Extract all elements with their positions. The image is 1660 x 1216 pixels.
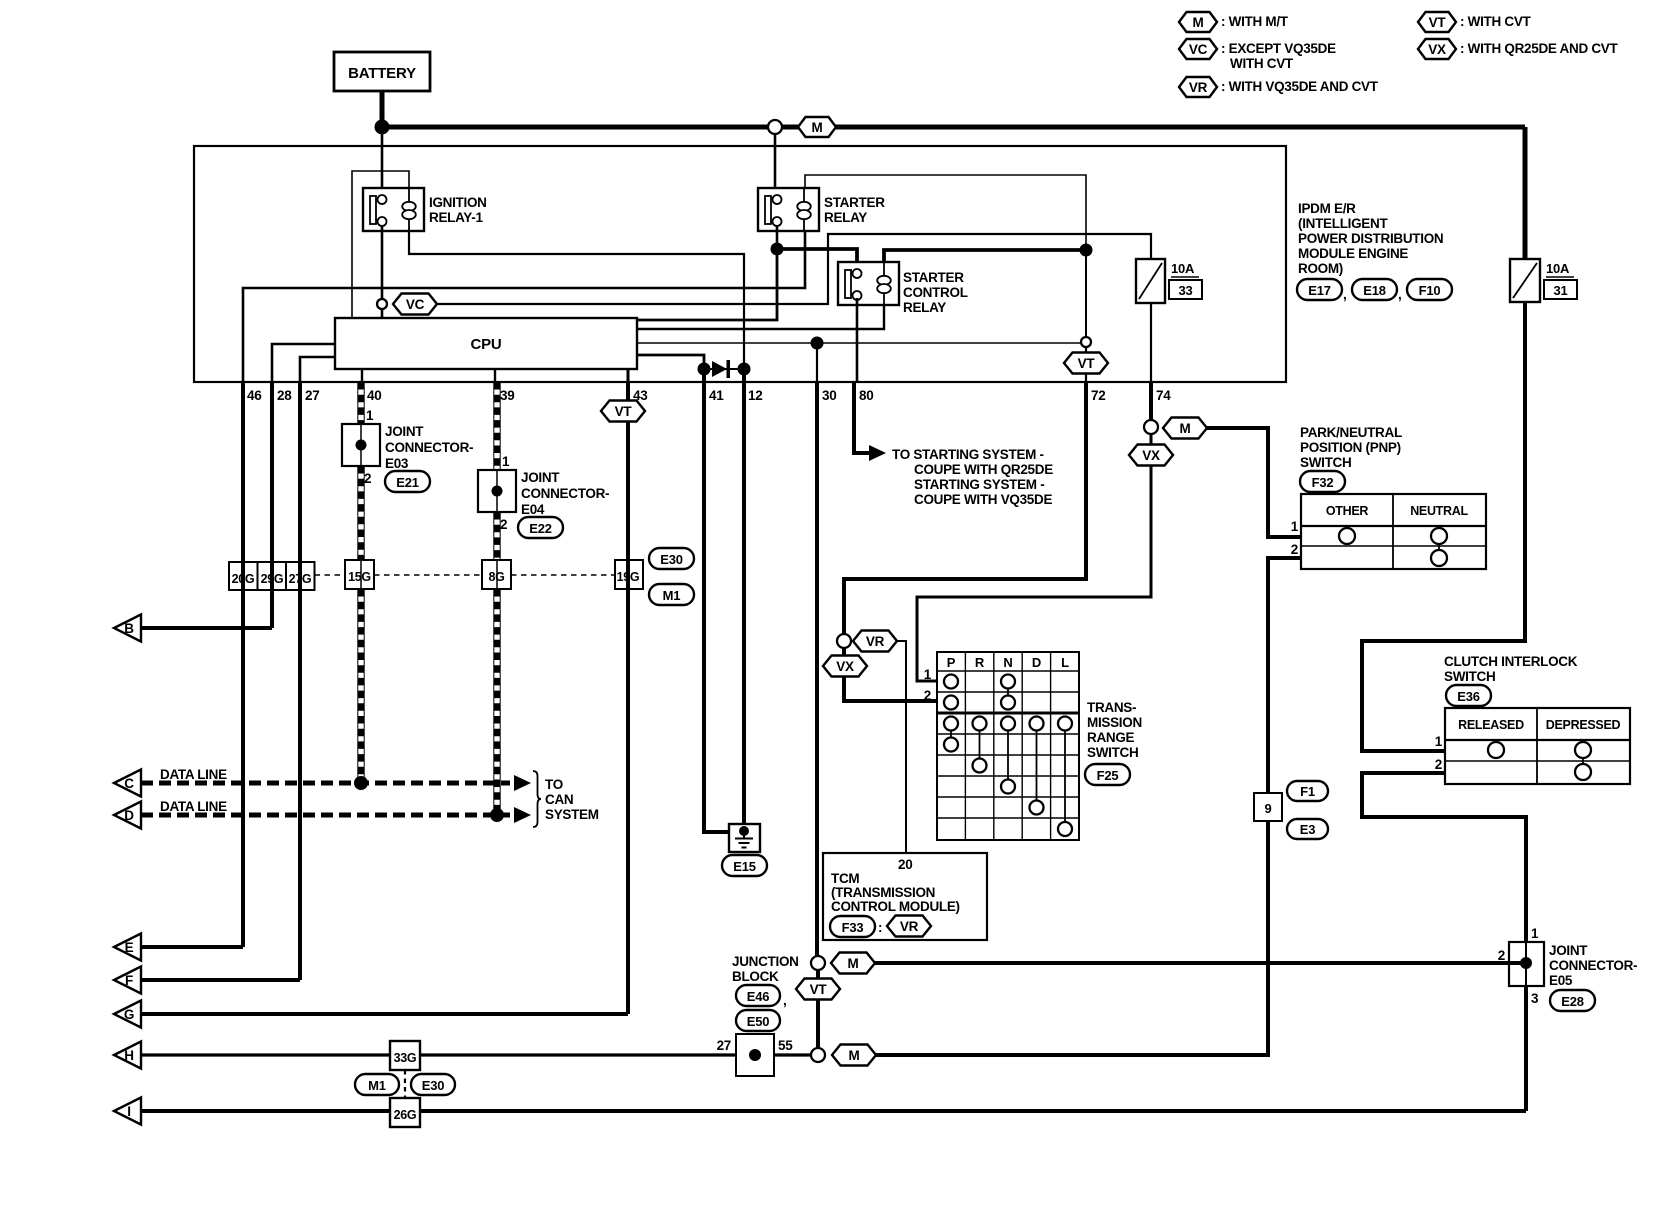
PNP switch title bbox=[1300, 425, 1402, 470]
wire CPU pin 27 bbox=[300, 357, 335, 382]
connector oval E46 bbox=[736, 985, 786, 1008]
wire pin 39 dashed segment bbox=[494, 382, 500, 470]
wire VR tag to TCM pin 20 bbox=[897, 641, 906, 853]
transmission range switch table bbox=[937, 652, 1079, 840]
connector oval F1 bbox=[1287, 781, 1328, 801]
svg-text:46: 46 bbox=[247, 388, 262, 403]
svg-text:CONNECTOR-: CONNECTOR- bbox=[1549, 958, 1637, 973]
svg-text:E15: E15 bbox=[733, 859, 756, 874]
svg-text:1: 1 bbox=[502, 454, 510, 469]
svg-text:H: H bbox=[124, 1048, 133, 1063]
wire starter relay out node bbox=[776, 226, 779, 249]
wire H to junction block bbox=[141, 1053, 736, 1056]
starter control relay bbox=[838, 262, 899, 305]
PNP contacts NEUTRAL bbox=[1431, 528, 1447, 566]
svg-text:M: M bbox=[848, 956, 859, 971]
svg-text:F10: F10 bbox=[1419, 283, 1441, 298]
svg-text:55: 55 bbox=[778, 1038, 793, 1053]
svg-text:: EXCEPT VQ35DE: : EXCEPT VQ35DE bbox=[1221, 41, 1336, 56]
tag VX below VR node bbox=[823, 656, 867, 677]
svg-text:SWITCH: SWITCH bbox=[1300, 455, 1351, 470]
svg-text:BATTERY: BATTERY bbox=[348, 65, 416, 82]
svg-text:CONNECTOR-: CONNECTOR- bbox=[385, 440, 473, 455]
svg-text:20G: 20G bbox=[232, 572, 255, 586]
dashed ganged-connector line bbox=[315, 574, 616, 576]
svg-text:SYSTEM: SYSTEM bbox=[545, 807, 599, 822]
svg-text:C: C bbox=[124, 776, 134, 791]
wire CPU pin 40 stub bbox=[361, 369, 363, 382]
wire pin 40 dashed segment bbox=[358, 382, 364, 424]
clutch interlock table bbox=[1445, 708, 1630, 784]
svg-text:27: 27 bbox=[305, 388, 319, 403]
splice box 9 on PNP pin2 riser bbox=[1254, 793, 1282, 821]
svg-text:F33: F33 bbox=[842, 920, 864, 935]
svg-text:E30: E30 bbox=[422, 1078, 445, 1093]
tag VC bbox=[393, 294, 437, 315]
svg-text:F1: F1 bbox=[1300, 784, 1315, 799]
splice box 8G bbox=[482, 560, 511, 589]
node starter relay output bbox=[771, 243, 784, 256]
connector oval M1 lower bbox=[355, 1074, 399, 1095]
wire battery down bbox=[380, 91, 385, 127]
joint connector E05 bbox=[1509, 942, 1544, 986]
arrow E bbox=[114, 934, 141, 961]
svg-text:IGNITION: IGNITION bbox=[429, 195, 487, 210]
connector oval F33 bbox=[830, 916, 882, 937]
TO STARTING SYSTEM text bbox=[892, 447, 1053, 507]
svg-text:P: P bbox=[947, 655, 956, 670]
svg-text:E3: E3 bbox=[1300, 822, 1316, 837]
svg-text:CONNECTOR-: CONNECTOR- bbox=[521, 486, 609, 501]
node junction block lower circle bbox=[811, 1048, 825, 1062]
diode D1 bbox=[712, 361, 727, 377]
connector oval F25 bbox=[1085, 764, 1130, 785]
wire control relay coil return to CPU bbox=[637, 305, 884, 329]
svg-text:3: 3 bbox=[1531, 991, 1539, 1006]
wire VC node to CPU top bbox=[381, 309, 384, 318]
svg-text:E46: E46 bbox=[747, 989, 770, 1004]
PNP switch table bbox=[1301, 494, 1486, 569]
svg-text:CLUTCH INTERLOCK: CLUTCH INTERLOCK bbox=[1444, 654, 1578, 669]
IPDM E/R enclosure box bbox=[194, 146, 1286, 382]
svg-text:OTHER: OTHER bbox=[1326, 504, 1369, 518]
wire pin74 circle down to range switch pin 1 bbox=[917, 434, 1151, 681]
wire junction block M to E05 pin 2 bbox=[875, 961, 1526, 965]
svg-text:BLOCK: BLOCK bbox=[732, 969, 779, 984]
connector oval E21 bbox=[385, 471, 430, 492]
svg-text:CPU: CPU bbox=[470, 336, 501, 353]
svg-text:VT: VT bbox=[615, 404, 633, 419]
wire I to joint connector E05 bbox=[141, 1109, 1526, 1113]
wire pin 28 down to B bbox=[270, 382, 274, 628]
legend tag M : WITH M/T bbox=[1179, 12, 1289, 32]
svg-text:41: 41 bbox=[709, 388, 724, 403]
wire E to pin 46 bbox=[141, 945, 243, 949]
splice box 15G bbox=[345, 560, 374, 589]
svg-text:E28: E28 bbox=[1561, 994, 1584, 1009]
svg-text:E18: E18 bbox=[1363, 283, 1386, 298]
svg-text:L: L bbox=[1061, 655, 1069, 670]
connector oval E3 bbox=[1287, 819, 1328, 839]
node VC circle bbox=[377, 299, 387, 309]
clutch contacts DEPRESSED bbox=[1575, 742, 1591, 780]
svg-text:SWITCH: SWITCH bbox=[1444, 669, 1495, 684]
svg-text:M: M bbox=[812, 120, 823, 135]
connector oval E28 bbox=[1550, 990, 1595, 1011]
svg-text:80: 80 bbox=[859, 388, 873, 403]
svg-text:TCM: TCM bbox=[831, 871, 859, 886]
wire fuse33 to pin 74 bbox=[1150, 303, 1152, 382]
svg-text:PARK/NEUTRAL: PARK/NEUTRAL bbox=[1300, 425, 1402, 440]
wire pin 74 to M circle bbox=[1149, 382, 1153, 420]
joint connector E04 bbox=[478, 470, 516, 512]
svg-text:VT: VT bbox=[810, 982, 828, 997]
TRANSMISSION RANGE SWITCH text bbox=[1087, 700, 1142, 760]
svg-text:20: 20 bbox=[898, 857, 912, 872]
wire junction down to VT circle bbox=[1085, 250, 1087, 337]
svg-text:26G: 26G bbox=[394, 1108, 417, 1122]
IPDM text block bbox=[1298, 201, 1443, 276]
arrowhead to starting system bbox=[869, 445, 886, 461]
legend tag VR : WITH VQ35DE AND CVT bbox=[1179, 77, 1379, 97]
svg-text:15G: 15G bbox=[348, 570, 371, 584]
svg-text:1: 1 bbox=[1435, 734, 1443, 749]
brace TO CAN SYSTEM bbox=[533, 771, 541, 827]
svg-text:F32: F32 bbox=[1312, 475, 1334, 490]
node VT option circle bbox=[1081, 337, 1091, 347]
svg-text:JUNCTION: JUNCTION bbox=[732, 954, 799, 969]
svg-text:SWITCH: SWITCH bbox=[1087, 745, 1138, 760]
svg-text:33G: 33G bbox=[394, 1051, 417, 1065]
node coil junction bbox=[1080, 244, 1093, 257]
svg-text:RELAY: RELAY bbox=[824, 210, 867, 225]
svg-text:I: I bbox=[127, 1104, 130, 1119]
wire VT circle to pin 72 bbox=[1085, 347, 1087, 382]
svg-text:E22: E22 bbox=[529, 521, 552, 536]
wire pin 30 down to junction block bbox=[815, 382, 819, 956]
svg-text:1: 1 bbox=[924, 667, 932, 682]
wire CPU pin 28 bbox=[272, 344, 335, 382]
fuse 33 10A bbox=[1136, 259, 1202, 303]
tag VT on pin 43 bbox=[601, 401, 645, 422]
svg-text:30: 30 bbox=[822, 388, 836, 403]
svg-text:R: R bbox=[975, 655, 985, 670]
PNP contact OTHER bbox=[1339, 528, 1355, 544]
arrow B bbox=[114, 615, 141, 642]
node diode cathode bbox=[738, 363, 751, 376]
svg-text:VX: VX bbox=[1428, 42, 1446, 57]
arrow D bbox=[114, 802, 141, 829]
svg-text:TO: TO bbox=[545, 777, 563, 792]
wire 8G to CAN-D dashed bbox=[494, 589, 500, 811]
svg-text:E03: E03 bbox=[385, 456, 409, 471]
svg-text:2: 2 bbox=[500, 517, 507, 532]
svg-text:DATA LINE: DATA LINE bbox=[160, 799, 227, 814]
TCM box bbox=[823, 853, 987, 940]
wire B to pin 28 bbox=[141, 626, 272, 630]
svg-text:MISSION: MISSION bbox=[1087, 715, 1142, 730]
svg-text:: WITH CVT: : WITH CVT bbox=[1460, 14, 1532, 29]
node junction block upper circle bbox=[811, 956, 825, 970]
wire ignition relay out to VC node bbox=[381, 226, 384, 299]
node VR junction circle bbox=[837, 634, 851, 648]
svg-text:VR: VR bbox=[900, 919, 919, 934]
svg-text:,: , bbox=[1398, 287, 1401, 302]
wire to starter control relay contact bbox=[777, 249, 857, 267]
svg-text:VR: VR bbox=[1189, 80, 1208, 95]
connector oval E18 bbox=[1352, 279, 1401, 302]
wire pin 43 down to G bbox=[626, 382, 630, 1014]
junction block splice box 27/55 bbox=[717, 1034, 794, 1076]
wire pin 80 to starting system arrow bbox=[854, 382, 869, 453]
svg-text:2: 2 bbox=[1435, 757, 1442, 772]
svg-text:M: M bbox=[1193, 15, 1204, 30]
svg-text:E50: E50 bbox=[747, 1014, 770, 1029]
connector oval E36 bbox=[1446, 685, 1491, 706]
svg-text:DEPRESSED: DEPRESSED bbox=[1546, 718, 1621, 732]
svg-text:CONTROL MODULE): CONTROL MODULE) bbox=[831, 899, 960, 914]
TO CAN SYSTEM text bbox=[545, 777, 599, 822]
tag M on battery bus bbox=[798, 117, 836, 137]
svg-text:E04: E04 bbox=[521, 502, 545, 517]
wire E03 to 15G dashed bbox=[358, 466, 364, 560]
svg-text:(TRANSMISSION: (TRANSMISSION bbox=[831, 885, 935, 900]
svg-text:RELEASED: RELEASED bbox=[1458, 718, 1524, 732]
svg-text:33: 33 bbox=[1178, 283, 1192, 298]
connector oval E50 bbox=[736, 1010, 780, 1031]
splice box 27G bbox=[286, 562, 315, 590]
wire fuse 31 to clutch pin 1 bbox=[1362, 302, 1525, 751]
svg-text:10A: 10A bbox=[1546, 261, 1570, 276]
svg-text:JOINT: JOINT bbox=[385, 424, 424, 439]
svg-text:(INTELLIGENT: (INTELLIGENT bbox=[1298, 216, 1388, 231]
tag VT on pin72 line bbox=[1064, 353, 1108, 374]
svg-text:28: 28 bbox=[277, 388, 292, 403]
svg-text:D: D bbox=[1032, 655, 1041, 670]
wire control relay out to pin 80 bbox=[856, 298, 859, 382]
wire diode link bbox=[704, 368, 744, 370]
wire junction block vertical bbox=[816, 970, 820, 1048]
legend tag VC : EXCEPT VQ35DE WITH CVT bbox=[1179, 39, 1336, 71]
wire clutch pin 2 to E05 pin 1 bbox=[1362, 773, 1526, 942]
svg-text:9: 9 bbox=[1264, 801, 1271, 816]
svg-text:MODULE ENGINE: MODULE ENGINE bbox=[1298, 246, 1408, 261]
tag VT at junction block bbox=[796, 979, 840, 1000]
svg-text:ROOM): ROOM) bbox=[1298, 261, 1343, 276]
range switch contacts column D bbox=[1030, 717, 1044, 815]
range switch contacts column R bbox=[973, 717, 987, 773]
CAN data line C dashed bbox=[141, 781, 510, 786]
svg-text:POSITION (PNP): POSITION (PNP) bbox=[1300, 440, 1401, 455]
E05 name text bbox=[1549, 943, 1637, 988]
connector oval E22 bbox=[518, 517, 563, 538]
wire pin 27 down to F bbox=[298, 382, 302, 980]
wire pin 46 down to E bbox=[241, 382, 245, 947]
battery B1 bbox=[334, 52, 430, 91]
svg-text:10A: 10A bbox=[1171, 261, 1195, 276]
svg-text:VC: VC bbox=[406, 297, 425, 312]
tag VR in TCM bbox=[887, 916, 931, 937]
svg-text:M1: M1 bbox=[663, 588, 681, 603]
svg-text:CAN: CAN bbox=[545, 792, 573, 807]
svg-text:COUPE WITH QR25DE: COUPE WITH QR25DE bbox=[914, 462, 1053, 477]
ignition relay coil loop wire to CPU bbox=[352, 171, 409, 318]
svg-text:VC: VC bbox=[1189, 42, 1208, 57]
splice box 19G bbox=[615, 560, 643, 589]
wire F to pin 27 bbox=[141, 978, 300, 982]
node pin30 junction bbox=[811, 337, 824, 350]
wire VC to fuse 33 bbox=[437, 234, 1151, 304]
svg-text:74: 74 bbox=[1156, 388, 1171, 403]
svg-text:TO STARTING SYSTEM -: TO STARTING SYSTEM - bbox=[892, 447, 1044, 462]
clutch contact RELEASED bbox=[1488, 742, 1504, 758]
arrow C bbox=[114, 770, 141, 797]
CAN data line D dashed bbox=[141, 813, 510, 818]
splice box 26G bbox=[390, 1098, 420, 1127]
dashed link 33G-26G bbox=[404, 1070, 406, 1098]
svg-text:WITH CVT: WITH CVT bbox=[1230, 56, 1294, 71]
svg-text:2: 2 bbox=[1498, 948, 1505, 963]
svg-text:2: 2 bbox=[364, 471, 371, 486]
wire starter relay coil return to pin 46 bbox=[243, 231, 805, 382]
wire tap circle to starter relay bbox=[774, 134, 777, 196]
svg-text:,: , bbox=[783, 993, 786, 1008]
range switch contacts column N bbox=[1001, 675, 1015, 794]
svg-text:VR: VR bbox=[866, 634, 885, 649]
wire CPU pin 43 stub bbox=[627, 369, 630, 382]
ignition relay IGN1 bbox=[363, 188, 424, 231]
connector oval E30 bbox=[649, 548, 694, 569]
svg-text:E: E bbox=[125, 940, 134, 955]
wire E04 to 8G dashed bbox=[494, 512, 500, 560]
arrowhead CAN C bbox=[514, 775, 531, 791]
svg-text:E17: E17 bbox=[1308, 283, 1331, 298]
tag M lower junction bbox=[832, 1045, 876, 1066]
svg-text:M: M bbox=[849, 1048, 860, 1063]
wire battery to ignition relay bbox=[381, 127, 384, 196]
tag M at junction block bbox=[831, 953, 875, 974]
wire E05 pin 3 down to I line bbox=[1524, 986, 1528, 1111]
svg-text:E36: E36 bbox=[1457, 689, 1480, 704]
svg-text:RELAY: RELAY bbox=[903, 300, 946, 315]
svg-text:B: B bbox=[124, 621, 134, 636]
svg-text:D: D bbox=[124, 808, 134, 823]
wire lower M to PNP pin 2 riser bbox=[876, 558, 1268, 1055]
svg-text:,: , bbox=[1343, 287, 1346, 302]
wire G to pin 43 bbox=[141, 1012, 628, 1016]
svg-text:39: 39 bbox=[500, 388, 514, 403]
connector oval E17 bbox=[1297, 279, 1346, 302]
svg-text:31: 31 bbox=[1553, 283, 1567, 298]
ground E15 bbox=[729, 824, 760, 852]
svg-text:E30: E30 bbox=[660, 552, 683, 567]
svg-text:40: 40 bbox=[367, 388, 381, 403]
fuse 31 10A bbox=[1510, 259, 1577, 302]
svg-text:VT: VT bbox=[1429, 15, 1447, 30]
connector oval F32 bbox=[1300, 471, 1345, 492]
svg-text:DATA LINE: DATA LINE bbox=[160, 767, 227, 782]
node CAN C junction bbox=[354, 776, 368, 790]
wire M tag to PNP pin 1 bbox=[1207, 428, 1301, 537]
wire VR node to range switch pin 2 bbox=[844, 648, 937, 701]
tag M at pin74 bbox=[1163, 418, 1207, 439]
splice box 20G bbox=[229, 562, 258, 590]
CPU box bbox=[335, 318, 637, 369]
svg-text:G: G bbox=[124, 1007, 134, 1022]
arrowhead CAN D bbox=[514, 807, 531, 823]
svg-text:2: 2 bbox=[924, 688, 931, 703]
tag VR bbox=[853, 631, 897, 652]
connector oval M1 bbox=[649, 584, 694, 605]
svg-text:VX: VX bbox=[1142, 448, 1160, 463]
svg-text:F: F bbox=[125, 973, 133, 988]
wire pin30 stub bbox=[816, 343, 818, 382]
connector oval E15 bbox=[722, 855, 767, 876]
range switch contacts column L bbox=[1058, 717, 1072, 837]
svg-text:8G: 8G bbox=[488, 570, 504, 584]
svg-text:E05: E05 bbox=[1549, 973, 1573, 988]
svg-text:M: M bbox=[1180, 421, 1191, 436]
connector oval F10 bbox=[1407, 279, 1452, 300]
svg-text:12: 12 bbox=[748, 388, 762, 403]
svg-text:IPDM E/R: IPDM E/R bbox=[1298, 201, 1356, 216]
svg-text:COUPE WITH VQ35DE: COUPE WITH VQ35DE bbox=[914, 492, 1052, 507]
svg-text:29G: 29G bbox=[261, 572, 284, 586]
arrow I bbox=[114, 1098, 141, 1125]
svg-text:STARTING SYSTEM -: STARTING SYSTEM - bbox=[914, 477, 1044, 492]
svg-text:JOINT: JOINT bbox=[1549, 943, 1588, 958]
arrow G bbox=[114, 1001, 141, 1028]
svg-text:1: 1 bbox=[1291, 519, 1299, 534]
svg-text:1: 1 bbox=[1531, 926, 1539, 941]
node pin74 circle bbox=[1144, 420, 1158, 434]
svg-text:E21: E21 bbox=[396, 475, 419, 490]
wire pin 41 to ground bbox=[704, 369, 729, 832]
clutch interlock switch title bbox=[1444, 654, 1578, 684]
wire pin 12 to ground bbox=[742, 367, 746, 831]
svg-text:STARTER: STARTER bbox=[824, 195, 885, 210]
svg-text:1: 1 bbox=[366, 408, 374, 423]
starter relay coil wire to VT node bbox=[805, 175, 1086, 250]
svg-text:27G: 27G bbox=[289, 572, 312, 586]
svg-text:F25: F25 bbox=[1097, 768, 1119, 783]
wire starter relay output to CPU bbox=[637, 249, 777, 320]
svg-text:2: 2 bbox=[1291, 542, 1298, 557]
svg-text:27: 27 bbox=[717, 1038, 731, 1053]
node battery junction bbox=[375, 120, 390, 135]
E03 name text bbox=[385, 424, 473, 471]
svg-text:POWER DISTRIBUTION: POWER DISTRIBUTION bbox=[1298, 231, 1443, 246]
wire control relay coil feed bbox=[884, 250, 1086, 266]
wire CPU to pin 30 and VT circle bbox=[637, 342, 1081, 344]
wire CPU to diode anode bbox=[637, 355, 704, 369]
svg-text:: WITH VQ35DE AND CVT: : WITH VQ35DE AND CVT bbox=[1221, 79, 1379, 94]
svg-text:VT: VT bbox=[1078, 356, 1096, 371]
legend tag VT : WITH CVT bbox=[1418, 12, 1532, 32]
wire 15G to CAN-C dashed bbox=[358, 589, 364, 779]
svg-text::: : bbox=[878, 920, 882, 935]
tag VX below pin74 circle bbox=[1129, 445, 1173, 466]
svg-text:72: 72 bbox=[1091, 388, 1105, 403]
wire ignition coil return to pin 12 bbox=[409, 231, 744, 369]
svg-text:: WITH QR25DE AND CVT: : WITH QR25DE AND CVT bbox=[1460, 41, 1619, 56]
arrow F bbox=[114, 967, 141, 994]
svg-text:: WITH M/T: : WITH M/T bbox=[1221, 14, 1289, 29]
wire battery bus to fuse 31 bbox=[382, 127, 1525, 259]
svg-text:NEUTRAL: NEUTRAL bbox=[1410, 504, 1468, 518]
wire pin 72 to VR node bbox=[844, 382, 1086, 634]
range switch contacts column P bbox=[944, 675, 958, 752]
